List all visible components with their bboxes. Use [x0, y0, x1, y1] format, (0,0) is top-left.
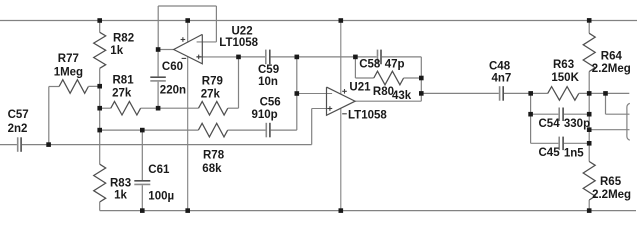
- svg-text:U22: U22: [232, 26, 253, 38]
- svg-text:1n5: 1n5: [564, 148, 584, 160]
- svg-text:R80: R80: [373, 86, 394, 98]
- svg-text:C48: C48: [489, 60, 511, 72]
- svg-text:C57: C57: [8, 109, 29, 121]
- svg-text:C45: C45: [539, 147, 561, 159]
- svg-text:C56: C56: [260, 97, 281, 109]
- svg-text:27k: 27k: [112, 88, 132, 100]
- svg-text:R83: R83: [110, 178, 131, 190]
- svg-text:1k: 1k: [110, 45, 123, 57]
- svg-text:R63: R63: [553, 59, 574, 71]
- svg-text:C59: C59: [258, 64, 279, 76]
- svg-text:R78: R78: [203, 149, 225, 161]
- svg-text:C58: C58: [359, 59, 381, 71]
- svg-text:R65: R65: [600, 176, 622, 188]
- svg-text:C54: C54: [539, 118, 561, 130]
- svg-text:330p: 330p: [564, 118, 590, 130]
- svg-text:4n7: 4n7: [492, 73, 512, 85]
- svg-text:2n2: 2n2: [8, 123, 28, 135]
- svg-text:47p: 47p: [385, 59, 405, 71]
- svg-text:R81: R81: [113, 75, 135, 87]
- svg-text:10n: 10n: [258, 76, 278, 88]
- svg-text:43k: 43k: [392, 90, 412, 102]
- svg-text:100µ: 100µ: [148, 191, 174, 203]
- svg-text:2.2Meg: 2.2Meg: [592, 189, 631, 201]
- svg-text:150K: 150K: [551, 72, 579, 84]
- svg-text:R79: R79: [202, 75, 223, 87]
- svg-text:1k: 1k: [114, 190, 127, 202]
- svg-text:1Meg: 1Meg: [54, 67, 83, 79]
- svg-text:R64: R64: [601, 50, 623, 62]
- svg-text:2.2Meg: 2.2Meg: [592, 63, 631, 75]
- svg-text:910p: 910p: [252, 109, 278, 121]
- svg-text:27k: 27k: [201, 89, 221, 101]
- svg-text:U21: U21: [349, 82, 371, 94]
- svg-text:LT1058: LT1058: [348, 110, 387, 122]
- svg-text:LT1058: LT1058: [219, 37, 258, 49]
- svg-text:R77: R77: [58, 53, 79, 65]
- svg-text:C60: C60: [162, 61, 183, 73]
- svg-text:68k: 68k: [202, 163, 222, 175]
- svg-text:220n: 220n: [160, 84, 186, 96]
- svg-text:R82: R82: [113, 32, 134, 44]
- svg-text:C61: C61: [148, 164, 170, 176]
